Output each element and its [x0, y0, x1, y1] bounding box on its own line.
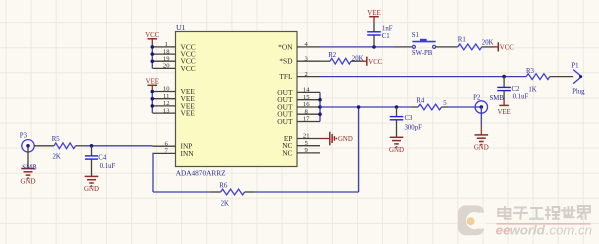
svg-text:1: 1 [165, 41, 168, 48]
svg-text:OUT: OUT [277, 117, 293, 126]
svg-text:INN: INN [181, 149, 195, 158]
svg-text:C4: C4 [98, 154, 107, 161]
svg-text:21: 21 [303, 133, 310, 140]
svg-text:R4: R4 [416, 97, 425, 104]
svg-text:0.1uF: 0.1uF [513, 94, 529, 101]
svg-text:R5: R5 [52, 136, 61, 143]
svg-text:SMB: SMB [490, 95, 505, 102]
svg-text:5: 5 [443, 100, 447, 107]
svg-text:300pF: 300pF [405, 124, 423, 131]
svg-text:ee: ee [496, 223, 511, 238]
svg-text:VCC: VCC [500, 45, 514, 52]
svg-text:R3: R3 [526, 68, 535, 75]
svg-text:GND: GND [84, 186, 99, 193]
svg-text:VEE: VEE [146, 79, 159, 86]
svg-text:2: 2 [305, 71, 308, 78]
svg-text:19: 19 [163, 55, 170, 62]
svg-text:GND: GND [389, 147, 404, 154]
svg-text:world: world [510, 223, 546, 238]
svg-text:VCC: VCC [368, 59, 382, 66]
svg-text:VCC: VCC [181, 64, 196, 73]
svg-text:GND: GND [21, 178, 36, 185]
svg-text:12: 12 [163, 100, 170, 107]
svg-text:1nF: 1nF [382, 26, 393, 33]
svg-text:ADA4870ARRZ: ADA4870ARRZ [176, 169, 226, 178]
svg-text:13: 13 [163, 107, 170, 114]
svg-text:P1: P1 [571, 62, 578, 69]
svg-text:SW-PB: SW-PB [412, 50, 433, 57]
svg-text:17: 17 [303, 116, 310, 123]
svg-text:U1: U1 [176, 23, 186, 32]
svg-text:VCC: VCC [145, 32, 160, 39]
svg-text:16: 16 [303, 101, 310, 108]
svg-text:R6: R6 [219, 183, 228, 190]
svg-text:R1: R1 [458, 36, 466, 43]
svg-text:P2: P2 [473, 94, 481, 101]
svg-text:VEE: VEE [367, 10, 380, 17]
svg-text:14: 14 [303, 87, 310, 94]
svg-text:TFL: TFL [279, 72, 293, 81]
svg-text:C3: C3 [405, 115, 414, 122]
svg-text:NC: NC [282, 148, 292, 157]
svg-text:*ON: *ON [278, 42, 293, 51]
svg-text:R2: R2 [328, 52, 337, 59]
svg-text:SMB: SMB [22, 164, 37, 171]
svg-text:*SD: *SD [279, 57, 293, 66]
svg-text:10: 10 [163, 86, 170, 93]
svg-text:15: 15 [303, 94, 310, 101]
svg-text:S1: S1 [412, 32, 419, 39]
svg-text:20: 20 [163, 63, 170, 70]
svg-text:.com.cn: .com.cn [546, 223, 592, 238]
svg-text:11: 11 [163, 93, 169, 100]
svg-text:GND: GND [338, 136, 353, 143]
svg-text:GND: GND [474, 145, 489, 152]
svg-text:C2: C2 [512, 86, 521, 93]
svg-text:C1: C1 [382, 33, 390, 40]
svg-text:VEE: VEE [181, 109, 196, 118]
svg-text:1K: 1K [528, 87, 536, 94]
svg-text:18: 18 [163, 48, 170, 55]
svg-text:2K: 2K [53, 154, 61, 161]
svg-text:P3: P3 [20, 133, 28, 140]
svg-text:VEE: VEE [497, 109, 510, 116]
svg-text:Plug: Plug [572, 88, 585, 95]
svg-text:0.1uF: 0.1uF [100, 163, 116, 170]
svg-text:20K: 20K [482, 39, 494, 46]
svg-text:2K: 2K [221, 201, 229, 208]
